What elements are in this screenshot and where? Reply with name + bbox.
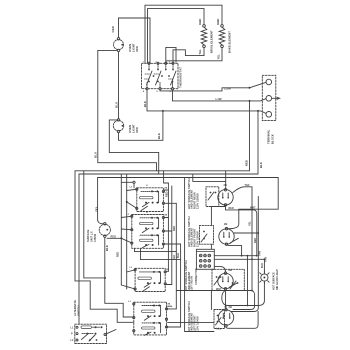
svg-text:BLK: BLK [157,133,161,139]
wire W3 blk [147,90,266,114]
wire unit1 top feed [193,174,226,189]
svg-text:40W: 40W [135,46,139,52]
wire connector right 2 [214,258,265,273]
hot surface switch D2 [200,225,214,244]
wire right column A [167,183,169,271]
svg-text:H: H [146,185,148,187]
wire feeder diagonals box2 [121,216,132,243]
wire connector to u3 [214,266,225,272]
svg-text:CONNECTOR: CONNECTOR [195,268,198,285]
svg-text:YEL: YEL [216,54,220,60]
wire connector right 1 [214,246,256,257]
svg-text:L2: L2 [71,339,75,342]
svg-text:L1: L1 [71,326,75,329]
wire W2 L1 [173,90,266,102]
svg-text:1: 1 [143,61,145,63]
hot surface switch D3 [212,269,244,290]
svg-text:COM: COM [224,87,231,91]
label oven light O2 [128,124,139,133]
svg-text:2B: 2B [229,268,233,272]
wire drop right column [164,171,169,183]
hot surface switch D1 [206,187,219,207]
oven light O2 [113,119,123,133]
svg-text:SWITCH: SWITCH [76,305,80,316]
hot surface switch D4 [214,310,225,329]
wire top inner L2 [148,9,205,64]
wire box3 stubs [166,271,172,284]
wire TAN u1 right [233,187,253,292]
svg-text:L1W: L1W [216,97,222,101]
svg-text:RED: RED [111,236,117,239]
svg-text:5: 5 [157,91,159,93]
svg-text:RED: RED [173,226,176,231]
wire W2 drop red [75,101,250,171]
svg-text:BLK: BLK [177,253,180,258]
thermostat [142,62,179,90]
svg-text:WHT: WHT [250,206,256,209]
wire rail R1 [225,171,227,182]
label alternate switch [73,300,80,316]
wire feeder diagonals box3 [121,270,135,289]
wire RED stub [107,237,121,239]
svg-text:BAKE ELEMENT: BAKE ELEMENT [227,31,231,53]
wire W1 COM [160,82,266,91]
infinite switch 4 [133,302,168,335]
svg-text:BLK: BLK [115,101,119,108]
alternate switch [75,324,116,343]
infinite switch 1 [136,188,165,212]
surface element U4 [218,309,233,327]
label indicator [273,269,279,290]
svg-text:2B: 2B [166,269,169,271]
svg-text:BLK: BLK [173,255,176,260]
svg-text:TERMINAL: TERMINAL [267,129,271,144]
svg-text:BLK: BLK [143,101,147,107]
surface element U3 [218,272,233,290]
wire box2 stubs [164,218,180,245]
infinite switch 3 [134,268,166,291]
svg-text:BLK: BLK [261,263,264,268]
svg-text:YEL: YEL [94,206,98,212]
broil element [201,25,207,48]
wire thermostat bridge [166,47,176,62]
svg-text:TAN: TAN [245,184,250,187]
svg-text:RED: RED [229,207,234,210]
svg-text:120V 1500W: 120V 1500W [195,316,199,332]
wire rail R2 drop [75,171,134,322]
svg-text:H: H [146,212,148,214]
svg-text:YEL: YEL [248,221,251,226]
svg-text:RED: RED [245,160,249,166]
wire feeder left column2 [120,174,122,285]
svg-text:BLK: BLK [94,151,98,158]
svg-text:4: 4 [143,90,145,93]
connector [196,249,214,269]
wire box4 to d4 [168,321,214,323]
wire drop to u3 bottom rail [247,255,249,307]
svg-text:L1: L1 [127,214,130,216]
svg-text:40W: 40W [135,127,139,133]
bake element [219,25,225,48]
svg-text:120V 2350W: 120V 2350W [195,193,199,209]
wire surface unit bottom [104,237,134,317]
wire u2 bottom [211,238,238,249]
wire u4 bottom loop [226,312,258,329]
svg-text:THERMOSTAT: THERMOSTAT [178,67,182,88]
svg-text:L1: L1 [128,301,131,303]
svg-text:RED: RED [198,19,202,25]
label surface unit LF [87,229,97,242]
svg-text:WHT: WHT [216,288,222,291]
label L1 P L2 [71,326,75,342]
svg-text:IND GLOW LIGHT: IND GLOW LIGHT [276,269,279,290]
wire u4 top link [225,307,227,309]
svg-text:L1a: L1a [217,327,222,331]
wire feeder diagonals box1 [127,189,137,208]
wire lamp2 bottom [119,110,164,140]
wire box1 top feed [121,181,135,188]
svg-text:BLK: BLK [105,245,109,251]
label oven light O1 [128,43,139,52]
svg-text:BLK: BLK [259,162,263,168]
svg-text:RED: RED [216,19,220,25]
svg-text:L1: L1 [130,186,133,188]
wire rail R3 drop [78,174,80,324]
surface unit LF [99,223,110,238]
infinite switch 2 [131,215,165,249]
label box terminals [127,185,171,305]
label unit4 column [187,301,199,332]
surface element U1 [218,189,233,206]
wire u3 bottom to u4 [225,290,227,308]
wire bake bottom [166,48,222,65]
wire broil bottom [173,48,204,63]
wire W3 drop blk [79,111,258,174]
wire u2 right [231,197,259,312]
wire bottom link to right [185,178,214,332]
wire lamp1 to lamp2 [118,52,120,119]
svg-text:RED: RED [165,191,168,197]
oven light O1 [114,38,124,52]
wire rail R4 staircase [84,171,105,278]
svg-text:2B: 2B [164,188,167,190]
wire right column D [167,244,181,327]
terminal block [262,75,281,120]
wire box4 stubs [168,305,172,307]
svg-text:RED: RED [111,25,115,32]
svg-text:L1: L1 [130,267,133,269]
svg-text:ALTERNATE: ALTERNATE [73,300,77,316]
svg-text:2B: 2B [224,183,228,187]
surface element U2 [219,228,234,246]
wire right column B [171,186,173,285]
wire right top rail [98,178,279,229]
svg-text:YEL: YEL [198,49,202,55]
wire u1 bottom [211,206,257,257]
svg-text:BLOCK: BLOCK [270,134,274,144]
label terminal block [267,129,275,144]
svg-text:1250W: 1250W [94,233,97,242]
indicator light [260,271,269,284]
svg-text:P: P [71,333,73,336]
svg-text:2B: 2B [164,215,167,217]
svg-text:BROIL ELEMENT: BROIL ELEMENT [209,30,213,53]
wire lamp1 return left [98,50,157,170]
wire YEL surface unit feed [98,174,128,289]
svg-text:TAN: TAN [259,251,262,256]
wire box1 stubs [164,190,176,203]
wire top outer L1 [145,5,222,63]
svg-text:2B: 2B [224,222,228,226]
svg-text:120V 1500W: 120V 1500W [195,231,199,247]
wire right column C [167,203,177,309]
svg-text:LEFT REAR: LEFT REAR [190,276,194,291]
label unit3 column [184,260,194,291]
wire u3 right blade [229,283,237,288]
wire oven light feed [119,18,151,63]
wire indicator bottom [222,281,265,305]
label unit2 column [187,216,199,247]
label thermostat pins [143,61,172,93]
wire box2 lower links [135,248,181,259]
svg-text:2B: 2B [229,305,233,309]
wire WHT u4 [176,291,254,310]
label unit1 column [187,178,199,209]
svg-text:6: 6 [170,91,172,93]
svg-text:RED: RED [116,252,119,257]
wire lamp2 branch left [109,120,158,174]
svg-text:2B: 2B [167,303,170,305]
